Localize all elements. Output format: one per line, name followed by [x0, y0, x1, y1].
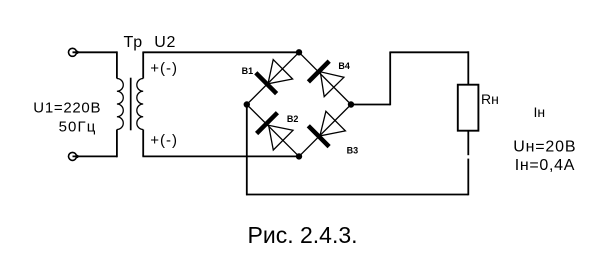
svg-text:Rн: Rн — [481, 91, 499, 107]
wire bottom-left horizontal — [73, 155, 117, 157]
svg-text:+(-): +(-) — [150, 60, 178, 77]
junction dot at bottom terminal — [75, 155, 78, 158]
wire primary bottom vertical — [116, 130, 118, 158]
diode B1 cathode bar — [256, 73, 277, 94]
wire left node down — [246, 105, 248, 196]
wire top rail — [389, 51, 468, 53]
junction dot at top terminal — [75, 51, 78, 54]
bridge edge top-left — [247, 52, 299, 104]
svg-text:В4: В4 — [338, 61, 350, 71]
diode B3 cathode bar — [308, 126, 329, 147]
wire U2 top to bridge — [142, 51, 299, 53]
wire bottom rail — [246, 194, 468, 196]
node top of bridge — [296, 49, 302, 55]
wire secondary bottom to bridge — [142, 155, 299, 157]
bridge edge bottom-left — [247, 105, 299, 157]
svg-text:+(-): +(-) — [150, 132, 178, 149]
diode B2 cathode bar — [257, 113, 278, 134]
svg-text:В1: В1 — [242, 66, 254, 76]
bridge edge bottom-right — [299, 105, 351, 157]
wire resistor bottom upper segment — [467, 131, 469, 156]
wire resistor feed — [467, 51, 469, 84]
wire top-left horizontal — [73, 51, 117, 53]
svg-text:Рис. 2.4.3.: Рис. 2.4.3. — [248, 222, 358, 248]
wire right riser — [389, 52, 391, 105]
wire secondary top vertical — [142, 52, 144, 78]
transformer core — [130, 78, 132, 131]
bridge edge top-right — [299, 52, 351, 104]
svg-text:Iн=0,4А: Iн=0,4А — [515, 157, 575, 174]
wire resistor bottom lower segment — [467, 159, 469, 196]
svg-text:Tp: Tp — [124, 34, 143, 51]
svg-text:В3: В3 — [347, 146, 359, 156]
node left of bridge — [244, 101, 250, 107]
diode B2 triangle — [269, 125, 293, 150]
svg-text:U1=220В: U1=220В — [33, 99, 101, 116]
diode B3 triangle — [320, 111, 346, 136]
diode B4 triangle — [320, 72, 344, 97]
primary winding of transformer Tp — [117, 79, 123, 130]
terminal circle top-left — [69, 48, 77, 56]
node right of bridge — [348, 101, 354, 107]
wire primary top vertical — [116, 51, 118, 78]
resistor Rn body — [458, 85, 479, 131]
node bottom of bridge — [296, 153, 302, 159]
wire secondary bottom vertical — [142, 130, 144, 157]
wire right node horizontal — [351, 104, 390, 106]
diode B4 cathode bar — [308, 61, 329, 82]
svg-text:Iн: Iн — [534, 104, 546, 120]
terminal circle bottom-left — [69, 152, 77, 160]
diode B1 triangle — [268, 60, 293, 84]
svg-text:В2: В2 — [287, 114, 299, 124]
secondary winding of transformer Tp — [137, 79, 143, 130]
svg-text:Uн=20В: Uн=20В — [513, 139, 576, 156]
svg-text:50Гц: 50Гц — [59, 118, 97, 135]
svg-text:U2: U2 — [154, 34, 176, 51]
